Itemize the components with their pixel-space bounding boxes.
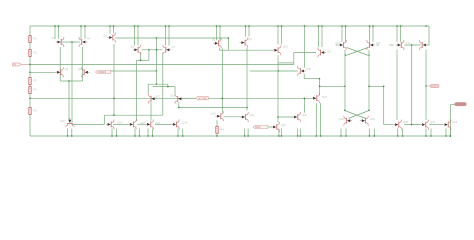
wire bus to Q10	[228, 49, 274, 51]
transistor Q28	[344, 116, 352, 126]
wire Q28 stub	[349, 120, 352, 122]
wire Q8 loop up	[227, 38, 229, 50]
wire drop to rail	[182, 129, 184, 137]
wire Q9 to rail	[248, 26, 250, 37]
wire Q2 to rail	[80, 26, 82, 39]
wire Q3 emitter down	[59, 47, 61, 81]
wire drop to rail	[430, 129, 432, 137]
svg-text:Q31: Q31	[430, 120, 436, 124]
transistor Q2	[79, 37, 87, 47]
wire drop to rail	[67, 129, 69, 137]
wire row link 9	[429, 124, 443, 126]
wire column x426	[425, 50, 427, 121]
junction pair mid	[71, 41, 72, 42]
svg-text:Q28: Q28	[339, 117, 345, 121]
wire column x397	[396, 50, 398, 121]
junction top rail	[80, 25, 81, 26]
svg-text:Q32: Q32	[452, 120, 458, 124]
wire Q13 to rail	[369, 26, 371, 42]
svg-text:Q24: Q24	[140, 121, 146, 125]
wire x384 down	[383, 86, 385, 124]
junction top rail	[54, 25, 55, 26]
svg-text:Q13: Q13	[376, 41, 382, 45]
junction x156 loop	[156, 84, 157, 85]
transistor Q21	[240, 112, 248, 122]
wire Q7 to rail	[168, 26, 170, 46]
junction col y72	[29, 72, 30, 73]
transistor Q26	[171, 119, 179, 129]
wire drop to rail	[177, 129, 179, 137]
wire to Q21 arrow	[224, 116, 243, 118]
wire Q6-Q7 link	[141, 49, 162, 51]
junction	[116, 135, 117, 136]
junction	[182, 135, 183, 136]
junction	[278, 135, 279, 136]
wire column x304 upper	[304, 26, 306, 68]
resistor R2	[29, 50, 31, 57]
transistor Q14	[396, 40, 404, 50]
wire Q13 to rail	[372, 26, 374, 42]
wire label lead	[427, 85, 431, 87]
wire IN port lead	[22, 63, 30, 65]
svg-text:Q19: Q19	[211, 112, 217, 116]
net label OUTREF	[196, 97, 209, 100]
junction	[450, 135, 451, 136]
junction X1 left	[345, 55, 346, 56]
wire Q14 stub	[390, 44, 394, 46]
junction	[247, 135, 248, 136]
wire Q5 to rail	[109, 26, 111, 34]
transistor Q33	[298, 66, 306, 76]
wire seg y78.7	[304, 78, 319, 80]
wire tail column	[71, 42, 73, 124]
wire column x137	[136, 60, 138, 121]
junction top rail	[109, 25, 110, 26]
wire Q8 loop bottom	[219, 49, 228, 51]
wire cross X1	[347, 48, 369, 56]
wire drop to rail	[280, 129, 282, 137]
transistor Q23	[106, 119, 114, 129]
svg-text:IN: IN	[14, 64, 17, 66]
svg-text:Q29: Q29	[370, 117, 376, 121]
wire Q2 to rail	[84, 26, 86, 39]
net label CMREF	[96, 70, 111, 73]
transistor Q30	[393, 120, 401, 130]
net label N1	[431, 84, 440, 87]
svg-text:Q6: Q6	[130, 44, 134, 48]
wire Q16 drop b	[320, 103, 322, 136]
transistor Q25	[145, 119, 153, 129]
junction	[134, 135, 135, 136]
wire left column	[29, 26, 31, 136]
junction	[344, 86, 345, 87]
wire top V+ rail	[30, 25, 429, 27]
wire y71 to Q33	[250, 70, 298, 72]
junction top rail	[137, 25, 138, 26]
junction	[369, 135, 370, 136]
junction	[319, 86, 320, 87]
wire drop to rail	[247, 129, 249, 137]
resistor R5	[29, 108, 31, 115]
wire drop to rail	[147, 129, 149, 137]
wire Q1 to rail	[58, 26, 60, 39]
resistor R1	[29, 36, 31, 43]
wire x151 down	[150, 102, 152, 120]
transistor Q3	[55, 67, 63, 77]
junction top rail	[245, 25, 246, 26]
junction top rail	[248, 25, 249, 26]
wire Q12 stub	[336, 44, 339, 46]
wire column x345	[344, 50, 346, 110]
junction x222	[222, 98, 223, 99]
svg-text:R4: R4	[33, 88, 37, 92]
transistor Q31	[420, 120, 428, 130]
wire Q1 to rail	[54, 26, 56, 39]
wire Q11b down	[303, 74, 305, 79]
junction top rail	[369, 25, 370, 26]
transistor Q5	[107, 33, 115, 43]
wire pair loop1	[148, 83, 168, 85]
wire to Q20	[278, 116, 294, 118]
svg-text:Q3: Q3	[65, 67, 69, 71]
wire Q4 emitter down	[82, 47, 84, 81]
junction	[340, 135, 341, 136]
junction top rail	[345, 25, 346, 26]
transistor Q1	[56, 37, 64, 47]
wire y107 seg b	[245, 107, 247, 109]
junction top rail	[372, 25, 373, 26]
transistor Q19	[215, 111, 223, 121]
junction col y98	[29, 98, 30, 99]
junction x149	[148, 49, 149, 50]
wire Q7 to rail	[165, 26, 167, 46]
junction loop2	[167, 86, 168, 87]
junction x156 top	[156, 37, 157, 38]
svg-text:OUTREF: OUTREF	[198, 97, 208, 100]
wire column x319	[319, 79, 321, 96]
junction	[374, 135, 375, 136]
junction x319	[319, 78, 320, 79]
junction top rail	[134, 25, 135, 26]
junction	[281, 135, 282, 136]
wire Q8 to rail	[219, 26, 221, 40]
junction x156 y71	[156, 70, 157, 71]
svg-text:Q5: Q5	[103, 34, 107, 38]
junction loop mid	[68, 80, 69, 81]
wire drop to rail	[116, 129, 118, 137]
wire emitter loop	[60, 80, 82, 82]
wire Q11 to rail	[318, 26, 320, 47]
svg-text:Q7: Q7	[172, 45, 176, 49]
junction	[345, 135, 346, 136]
wire R6 to rail	[216, 133, 218, 136]
junction top rail	[318, 25, 319, 26]
wire y86 b	[369, 85, 384, 87]
wire Q6 to rail	[137, 26, 139, 46]
junction	[67, 135, 68, 136]
junction	[402, 135, 403, 136]
transistor Q6	[133, 45, 141, 55]
wire bus IN y64.6	[30, 64, 294, 66]
svg-text:R1: R1	[33, 37, 37, 41]
junction x304	[304, 98, 305, 99]
wire drop to rail	[278, 129, 280, 137]
junction	[300, 135, 301, 136]
wire column x369	[368, 50, 370, 110]
wire OUT down	[449, 105, 451, 136]
wire Q14 to rail	[400, 26, 402, 42]
wire Q12 to rail	[341, 26, 343, 42]
wire Q20 top feed	[303, 98, 305, 113]
svg-text:Q11: Q11	[327, 50, 332, 54]
wire drop to rail	[297, 129, 299, 137]
svg-text:Q26: Q26	[182, 120, 188, 124]
wire column x278	[277, 55, 279, 123]
junction	[111, 135, 112, 136]
wire drop to rail	[373, 129, 375, 137]
junction top rail	[425, 25, 426, 26]
junction X2 right	[368, 110, 369, 111]
transistor Q11	[318, 48, 326, 58]
svg-text:Q14: Q14	[405, 41, 411, 45]
wire Q6 loop down	[140, 53, 142, 61]
wire Q13 stub	[377, 44, 380, 46]
junction x140	[140, 60, 141, 61]
transistor Q8	[213, 38, 221, 48]
wire Q11 to rail	[321, 26, 323, 47]
wire CMREF to pair	[111, 70, 157, 72]
wire Q6 loop bottom	[137, 59, 149, 61]
wire column x114	[113, 44, 115, 115]
wire Q6 loop up	[148, 50, 150, 60]
junction top rail	[281, 25, 282, 26]
svg-text:Q8: Q8	[212, 38, 216, 42]
transistor Q27	[271, 122, 279, 132]
wire drop to rail	[445, 129, 447, 137]
transistor Q18	[175, 94, 183, 104]
junction	[430, 135, 431, 136]
wire drop to rail	[340, 129, 342, 137]
wire y86 a	[320, 85, 344, 87]
wire pair loop2	[153, 86, 175, 88]
junction top rail	[165, 25, 166, 26]
wire Q8 loop down	[218, 48, 220, 51]
junction Q8 loop	[228, 37, 229, 38]
wire Q29 stub	[360, 120, 363, 122]
wire Q18 down	[178, 102, 180, 107]
wire bus y98	[30, 97, 315, 99]
wire drop to rail	[134, 129, 136, 137]
svg-text:Q23: Q23	[117, 121, 123, 125]
wire Q14-Q15 link	[404, 44, 421, 46]
wire loop tail	[68, 81, 70, 120]
junction	[152, 135, 153, 136]
junction	[244, 135, 245, 136]
wire drop to rail	[111, 129, 113, 137]
wire column x247	[246, 48, 248, 111]
wire Q6 to rail	[134, 26, 136, 46]
junction top rail	[84, 25, 85, 26]
svg-text:Q10: Q10	[283, 45, 289, 49]
wire column x222	[221, 48, 223, 113]
transistor Q20	[292, 112, 300, 122]
transistor Q32	[443, 120, 451, 130]
junction IN	[29, 64, 30, 65]
wire row link 3	[138, 123, 147, 125]
resistor R3	[29, 78, 31, 85]
wire column x156	[156, 38, 158, 84]
svg-text:Q22: Q22	[60, 119, 66, 123]
wire Q16 drop a	[315, 103, 317, 136]
junction x412 row	[411, 124, 412, 125]
transistor Q9	[240, 38, 248, 48]
wire Q11 base	[294, 52, 316, 54]
wire loop2 right drop	[174, 87, 176, 94]
junction	[368, 86, 369, 87]
junction	[147, 135, 148, 136]
junction x278 row	[277, 116, 278, 117]
wire row link 2	[113, 123, 129, 125]
wire cross X2	[345, 111, 369, 119]
junction x412 top	[411, 44, 412, 45]
junction top rail	[168, 25, 169, 26]
svg-text:Q9: Q9	[248, 37, 252, 41]
svg-text:Q30: Q30	[403, 120, 409, 124]
wire row link 8	[404, 124, 420, 126]
junction top rail	[58, 25, 59, 26]
svg-text:R3: R3	[33, 79, 37, 83]
wire Q10 to rail	[281, 26, 283, 45]
junction top rail	[321, 25, 322, 26]
wire drop to rail	[368, 129, 370, 137]
svg-text:Q27: Q27	[281, 123, 287, 127]
wire row link 4	[155, 123, 171, 125]
junction y107	[178, 107, 179, 108]
wire jog top	[278, 62, 293, 64]
junction top rail	[304, 25, 305, 26]
svg-text:Q1: Q1	[52, 36, 56, 40]
svg-text:Q4: Q4	[78, 67, 82, 71]
wire drop to rail	[449, 129, 451, 137]
resistor R4	[29, 87, 31, 94]
svg-text:Q25: Q25	[155, 121, 161, 125]
net label BIAS	[253, 125, 268, 128]
svg-text:Q33: Q33	[306, 67, 312, 71]
wire x104 down	[103, 115, 105, 124]
wire Q19 to R6	[216, 120, 218, 126]
junction X1 right	[368, 55, 369, 56]
resistor R6	[216, 126, 218, 133]
junction	[383, 86, 384, 87]
junction top rail	[219, 25, 220, 26]
junction	[71, 135, 72, 136]
wire y107 seg	[179, 107, 245, 109]
wire seg y115	[104, 114, 162, 116]
transistor Q12	[338, 40, 346, 50]
wire drop to rail	[152, 129, 154, 137]
junction top rail	[113, 25, 114, 26]
wire Q7 down column	[162, 53, 164, 115]
junction top rail	[277, 25, 278, 26]
junction x156 mid	[156, 49, 157, 50]
transistor Q15	[420, 40, 428, 50]
wire Q10 to rail	[277, 26, 279, 45]
wire OUT lead	[450, 104, 454, 106]
junction	[216, 135, 217, 136]
junction	[316, 135, 317, 136]
transistor Q22	[65, 118, 75, 126]
wire loop1 right drop	[167, 84, 169, 86]
svg-text:Q18: Q18	[170, 94, 176, 98]
junction top rail	[400, 25, 401, 26]
wire drop to rail	[244, 129, 246, 137]
transistor Q7	[163, 45, 171, 55]
junction	[450, 135, 451, 136]
wire to OUTREF	[183, 97, 196, 99]
svg-text:Q20: Q20	[302, 113, 308, 117]
svg-text:Q2: Q2	[87, 36, 91, 40]
junction	[297, 135, 298, 136]
transistor Q13	[367, 40, 375, 50]
svg-text:BIAS: BIAS	[255, 126, 261, 129]
wire drop to rail	[397, 129, 399, 137]
transistor Q16	[311, 93, 319, 103]
junction	[139, 135, 140, 136]
wire Q5 to rail	[113, 26, 115, 34]
junction top rail	[396, 25, 397, 26]
wire Q14 to rail	[396, 26, 398, 42]
wire Q8 to rail	[216, 26, 218, 40]
transistor Q10	[273, 45, 281, 55]
svg-text:R6: R6	[220, 127, 224, 131]
wire Q9 to rail	[245, 26, 247, 37]
svg-text:Q16: Q16	[322, 95, 328, 99]
svg-text:CMREF: CMREF	[98, 71, 107, 74]
wire drop to rail	[425, 129, 427, 137]
wire drop to rail	[402, 129, 404, 137]
junction	[397, 135, 398, 136]
junction	[425, 135, 426, 136]
junction	[320, 135, 321, 136]
port IN	[13, 63, 22, 66]
wire drop to rail	[299, 129, 301, 137]
junction	[177, 135, 178, 136]
junction x247 y107	[246, 107, 247, 108]
transistor Q24	[128, 119, 136, 129]
wire base bus y38	[115, 37, 228, 39]
wire bottom rail	[30, 135, 451, 137]
wire Q15 right	[426, 44, 429, 46]
svg-text:R5: R5	[33, 109, 37, 113]
transistor Q4	[82, 67, 90, 77]
svg-text:Q21: Q21	[250, 113, 256, 117]
wire row link 1	[73, 123, 105, 125]
svg-text:Q12: Q12	[335, 41, 341, 45]
junction x114 b	[113, 115, 114, 116]
wire row link 7	[384, 124, 394, 126]
junction X2 left	[344, 110, 345, 111]
wire rail end down	[428, 26, 430, 45]
wire loop1 left drop	[147, 84, 149, 94]
svg-text:R2: R2	[33, 51, 37, 55]
wire drop to rail	[345, 129, 347, 137]
junction top rail	[341, 25, 342, 26]
junction top rail	[216, 25, 217, 26]
wire x294 down	[293, 53, 295, 65]
wire drop to rail	[71, 129, 73, 137]
wire drop to rail	[139, 129, 141, 137]
svg-text:Q17: Q17	[155, 94, 161, 98]
